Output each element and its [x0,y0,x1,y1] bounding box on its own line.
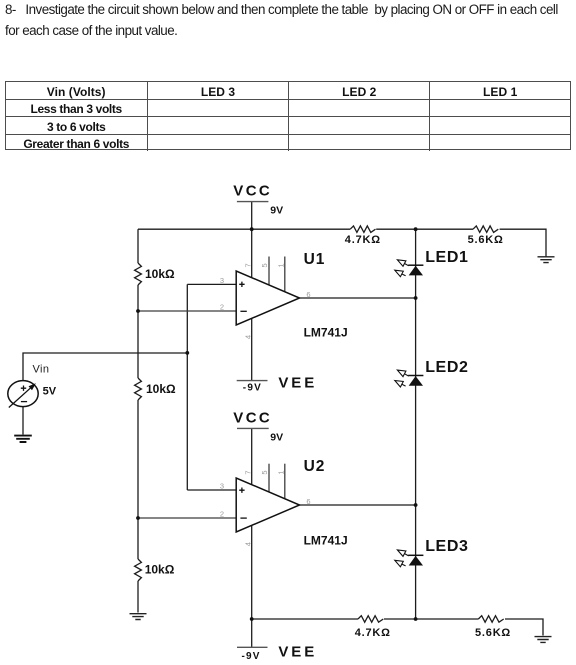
svg-text:VCC: VCC [233,410,272,427]
svg-text:4.7KΩ: 4.7KΩ [345,234,381,246]
svg-text:3: 3 [220,276,224,285]
svg-text:1: 1 [277,263,286,267]
svg-text:LM741J: LM741J [304,325,348,339]
svg-text:2: 2 [220,510,224,519]
svg-text:9V: 9V [270,431,283,443]
svg-text:5: 5 [260,263,269,267]
svg-text:2: 2 [220,303,224,312]
svg-text:Vin: Vin [33,363,50,375]
svg-text:LM741J: LM741J [304,533,348,547]
svg-text:5V: 5V [43,385,57,397]
svg-text:4: 4 [243,335,252,339]
svg-text:VEE: VEE [278,374,317,391]
svg-text:6: 6 [306,497,310,506]
svg-text:3: 3 [220,482,224,491]
svg-text:LED2: LED2 [425,359,468,376]
svg-text:5.6KΩ: 5.6KΩ [468,234,504,246]
svg-text:VCC: VCC [233,182,272,199]
svg-text:U1: U1 [304,251,326,268]
svg-text:6: 6 [306,290,310,299]
svg-text:LED1: LED1 [425,249,468,266]
svg-text:1: 1 [277,471,286,475]
svg-text:4: 4 [243,542,252,546]
svg-text:9V: 9V [270,205,283,217]
svg-text:-9V: -9V [243,383,262,394]
svg-text:7: 7 [243,263,252,267]
svg-text:10kΩ: 10kΩ [145,267,175,281]
svg-text:5.6KΩ: 5.6KΩ [475,627,511,639]
svg-text:7: 7 [243,471,252,475]
svg-text:U2: U2 [304,458,326,475]
svg-text:10kΩ: 10kΩ [146,382,176,396]
svg-text:VEE: VEE [278,643,317,660]
svg-text:5: 5 [260,471,269,475]
svg-text:LED3: LED3 [425,538,468,555]
svg-text:-9V: -9V [242,651,261,662]
svg-text:10kΩ: 10kΩ [145,563,175,577]
svg-text:4.7KΩ: 4.7KΩ [355,627,391,639]
